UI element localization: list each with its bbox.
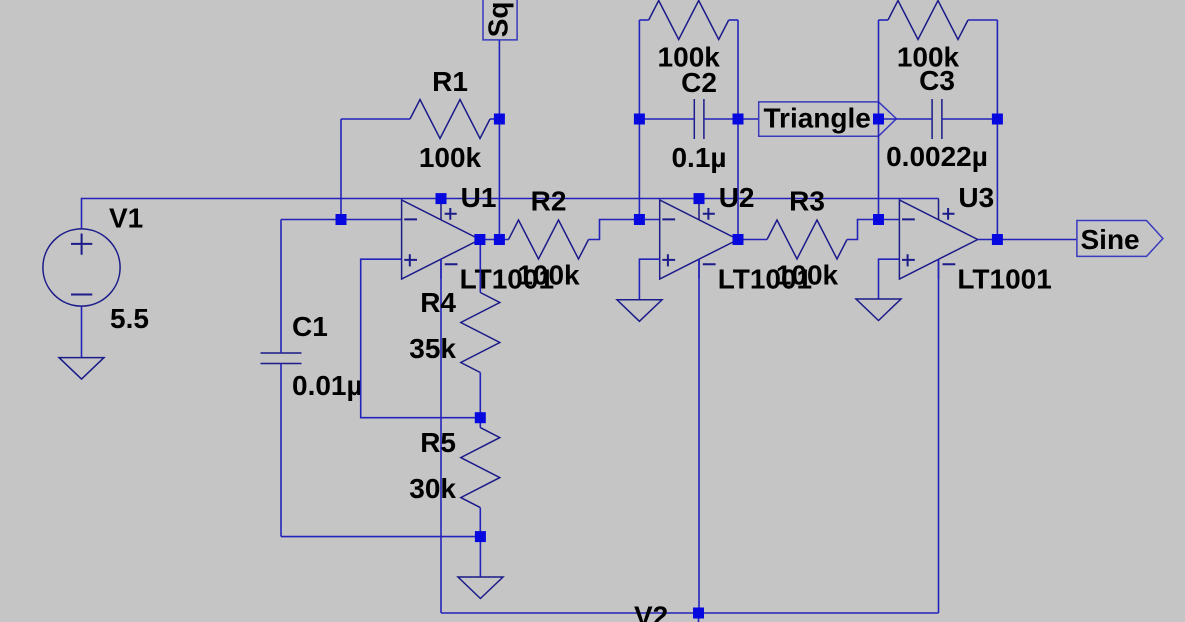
wire C3 right lead (942, 118, 998, 120)
svg-text:0.1µ: 0.1µ (671, 142, 726, 173)
svg-text:C3: C3 (919, 65, 955, 96)
junction node V2 (693, 608, 704, 619)
wire R4 top lead (479, 240, 481, 293)
wire R1 drop (340, 119, 342, 220)
svg-text:0.01µ: 0.01µ (292, 370, 363, 401)
junction node C2 right top (733, 114, 744, 125)
svg-text:V2: V2 (634, 601, 668, 622)
wire R1 left lead (341, 118, 410, 120)
junction node R1 drop / inverting wire (336, 214, 347, 225)
wire R3 right to U3 inverting (847, 220, 899, 240)
wire U1 Vminus down to bottom rail (440, 259, 442, 613)
capacitor C3 (932, 99, 942, 139)
net flag Square (483, 0, 518, 40)
svg-text:R1: R1 (432, 66, 468, 97)
svg-text:Square: Square (483, 0, 514, 37)
wire U1 plus input feedback (361, 259, 481, 418)
svg-text:U3: U3 (958, 182, 994, 213)
svg-text:R5: R5 (420, 427, 456, 458)
wire C3 right column down to U3 output (996, 20, 998, 240)
junction node C2 left top (634, 114, 645, 125)
svg-text:U2: U2 (719, 182, 755, 213)
junction node Square drop at output (494, 234, 505, 245)
ground (R5) (458, 577, 503, 599)
svg-text:U1: U1 (461, 182, 497, 213)
wire R5 ground lead (479, 537, 481, 577)
junction node R5 bottom (475, 531, 486, 542)
wire C3 left column (878, 20, 880, 220)
wire R5 bottom lead (479, 508, 481, 537)
wire V1 top to rail (82, 199, 939, 229)
wire V1 bottom to ground (81, 306, 83, 357)
svg-text:V1: V1 (109, 203, 143, 234)
wire R4 bottom lead (479, 373, 481, 418)
svg-text:R3: R3 (789, 186, 825, 217)
wire C2 left lead (639, 118, 694, 120)
wire C3 loop right lead (968, 19, 997, 21)
wire Square drop (498, 40, 500, 240)
wire Triangle flag stub (738, 118, 759, 120)
wire U2 Vplus stub (698, 199, 700, 201)
net flag Triangle (759, 102, 897, 136)
svg-text:R2: R2 (531, 186, 567, 217)
svg-text:C2: C2 (681, 67, 717, 98)
op-amp U3 (899, 199, 977, 280)
wire U3 Vminus down to bottom rail (938, 259, 940, 613)
junction node Triangle / C3 left (873, 114, 884, 125)
svg-text:LT1001: LT1001 (957, 264, 1051, 295)
wire U1 output (480, 239, 509, 241)
op-amp U2 (660, 199, 738, 280)
svg-text:35k: 35k (409, 333, 456, 364)
junction node U2 V+ (694, 193, 705, 204)
wire C2 loop right lead (729, 19, 738, 21)
capacitor C1 (261, 353, 302, 364)
ground (V1) (59, 358, 104, 380)
junction node U3 inverting (873, 214, 884, 225)
junction node U1 V+ (436, 193, 447, 204)
wire U3 output to Sine flag (978, 239, 1077, 241)
wire U3 plus input to ground (879, 259, 900, 299)
wire R5 bottom to C1 (281, 536, 480, 538)
svg-text:100k: 100k (517, 260, 580, 291)
voltage source V1 (43, 229, 120, 306)
svg-text:5.5: 5.5 (110, 303, 149, 334)
wire C2 loop left lead (639, 19, 648, 21)
resistor R5 (461, 428, 500, 508)
wire C2 left column (638, 20, 640, 220)
svg-text:100k: 100k (419, 142, 482, 173)
wire R2 right to U2 inverting (589, 220, 660, 240)
svg-text:Sine: Sine (1081, 224, 1140, 255)
svg-text:C1: C1 (292, 311, 328, 342)
net flag Sine (1077, 221, 1163, 257)
wire C2 right column down to U2 output (737, 20, 739, 240)
junction node U2 output (733, 234, 744, 245)
junction node R4/R5 (475, 412, 486, 423)
resistor R2 (509, 220, 589, 259)
ground (U3) (856, 299, 901, 321)
resistor R3 (767, 220, 847, 259)
wire C1 bottom (280, 364, 282, 537)
wire C2 right lead (704, 118, 738, 120)
resistor 100k above C2 (649, 1, 729, 40)
wire U2 output (738, 239, 767, 241)
resistor R4 (461, 293, 500, 373)
wire R5 top lead (479, 418, 481, 428)
svg-text:Triangle: Triangle (764, 103, 871, 134)
junction node C3 right top (992, 114, 1003, 125)
ground (U2) (617, 300, 662, 322)
wire inverting input row U1 (281, 219, 402, 221)
wire C3 left lead (879, 118, 933, 120)
svg-text:R4: R4 (420, 287, 456, 318)
svg-text:0.0022µ: 0.0022µ (886, 141, 988, 172)
op-amp U1 (402, 199, 480, 280)
svg-text:30k: 30k (409, 473, 456, 504)
junction node R1 / Square (494, 114, 505, 125)
wire U2 Vminus down to bottom rail (698, 259, 700, 613)
wire C3 loop left lead (879, 19, 889, 21)
wire C1 top (280, 220, 282, 354)
wire U2 plus input to ground (639, 259, 659, 300)
wire bottom rail (441, 612, 939, 614)
junction node C3 right / U3 output (992, 234, 1003, 245)
wire V2 stub (698, 613, 700, 622)
resistor R1 (410, 100, 490, 139)
junction node U2 inverting (634, 214, 645, 225)
wire R1 right lead (490, 118, 499, 120)
junction node U1 output (474, 234, 485, 245)
resistor 100k above C3 (888, 1, 968, 40)
capacitor C2 (694, 99, 704, 139)
svg-text:100k: 100k (776, 260, 839, 291)
